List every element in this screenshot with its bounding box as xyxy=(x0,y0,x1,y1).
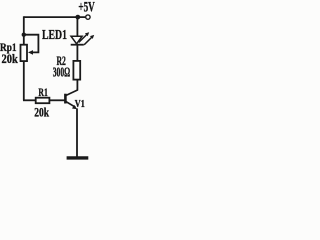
junction dot top rail xyxy=(75,15,80,20)
wire bottom-left horizontal to R1 xyxy=(23,99,36,101)
transistor V1 collector diagonal xyxy=(66,90,78,96)
potentiometer Rp1 body xyxy=(21,45,28,61)
wire top rail xyxy=(24,16,86,18)
transistor V1 base bar xyxy=(64,94,67,104)
+5V terminal circle xyxy=(86,15,90,19)
svg-text:LED1: LED1 xyxy=(42,28,67,43)
wire emitter down to ground xyxy=(76,108,78,157)
wire LED anode from rail xyxy=(76,16,78,36)
wire wiper loop xyxy=(24,35,38,53)
wire left vertical upper xyxy=(23,16,25,44)
svg-text:20k: 20k xyxy=(2,51,19,66)
svg-text:R1: R1 xyxy=(38,87,48,99)
junction dot wiper tie xyxy=(22,33,26,37)
wiper arrowhead xyxy=(28,50,33,55)
ground xyxy=(67,156,89,159)
wire LED cathode to R2 xyxy=(76,45,78,61)
svg-text:V1: V1 xyxy=(75,98,85,110)
wire R1 to base xyxy=(50,99,65,101)
LED light arrow 2 xyxy=(84,35,94,45)
wire R2 bottom to collector xyxy=(76,80,78,90)
transistor V1 emitter arrowhead xyxy=(72,105,77,109)
svg-text:20k: 20k xyxy=(34,105,49,119)
resistor R2 body xyxy=(73,61,80,80)
LED light arrow 1 xyxy=(79,32,89,42)
wire left vertical lower xyxy=(23,62,25,101)
LED1 diode triangle xyxy=(71,36,82,44)
transistor V1 emitter diagonal xyxy=(66,102,76,108)
svg-text:+5V: +5V xyxy=(78,0,95,16)
svg-text:300Ω: 300Ω xyxy=(53,65,70,80)
LED1 cathode bar xyxy=(71,44,84,46)
resistor R1 body xyxy=(36,98,50,104)
